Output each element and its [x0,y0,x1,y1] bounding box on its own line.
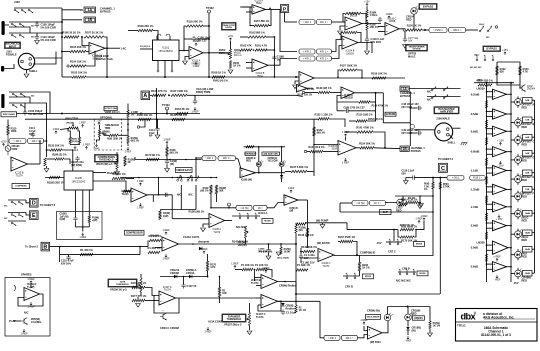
diode CR126 [281,303,284,306]
junction 296 bus [295,293,297,295]
wire r150 to boxes [422,29,429,31]
wire rail296 [295,244,297,305]
resistor box row3b [317,56,332,61]
label VR103 [105,111,121,114]
svg-text:COMPRESSOR: COMPRESSOR [126,233,143,235]
wire out down 172 [171,195,173,219]
resistor box R? row1a [299,20,315,25]
svg-text:C(W) 1700 5% C27: C(W) 1700 5% C27 [344,106,366,109]
label N/C spare [24,311,29,315]
wire tp104 hang [152,195,154,202]
svg-text:MALE: MALE [408,55,416,59]
power +REF diode row [200,247,208,254]
wire r150 drop [216,194,218,202]
op-amp comparator U8 [493,221,507,231]
svg-text:- 15V: - 15V [497,164,503,168]
svg-text:63V: 63V [402,172,407,175]
wire crb rail [343,275,360,277]
ground brc [428,333,433,337]
wire 106b2 out [298,199,308,201]
wire box2 stub [532,136,535,138]
wire cmp1 in stub [487,110,493,112]
wire row1 +in stub [340,26,345,30]
svg-text:SIDE CHAIN: SIDE CHAIN [3,113,15,116]
svg-text:1(W): 1(W) [163,215,168,218]
junction 274 50 [274,49,276,51]
op-amp IC103B [252,59,268,78]
svg-text:2dB: 2dB [525,137,529,139]
resistor R trim a [69,137,71,144]
svg-text:+(W): +(W) [476,78,482,82]
potentiometer VR107 [246,313,250,326]
power +15V cmp d [497,139,504,146]
label C106 [96,54,113,61]
wire tp103 stem [166,110,168,114]
resistor box row2a [299,49,315,54]
svg-text:5% 100 COR: 5% 100 COR [41,38,56,42]
label box BALANCED INPUT [5,42,21,49]
wire into boxes2 [211,207,237,209]
label -15V cr7 [376,241,382,245]
wire VCA pin hook1 [156,36,158,40]
power -REF vga [191,107,199,114]
svg-text:R1 33K 1%: R1 33K 1% [147,246,161,250]
svg-text:FREQ TRIM: FREQ TRIM [196,90,210,94]
junction bus 62/22 [61,21,63,23]
svg-text:1K 1%: 1K 1% [362,266,370,269]
junction y196 [432,195,434,197]
testpoint TP106 [228,203,231,206]
wire cmp0 in stub2 [487,96,493,98]
svg-text:- REF: - REF [494,278,501,282]
IC U101 VCA [153,40,180,61]
label IC106D [300,87,315,91]
wire row3 to op [332,46,343,59]
resistor R123 [519,66,529,75]
svg-text:R104 10K 1%: R104 10K 1% [70,60,87,64]
op-amp IC102A [189,47,203,66]
resistor box colf b [470,176,486,181]
wire mode rail 177 [121,177,217,179]
op-amp IC50D [368,327,383,340]
wire q102 loop [497,62,520,85]
wire box6 stub [532,212,535,214]
resistor divider Rd0 [485,101,487,109]
svg-text:50V: 50V [304,256,309,260]
wire 296 top link [295,223,297,225]
wire ue link [196,157,202,159]
junction bus 62/33 [61,32,63,34]
label c hang [258,249,268,254]
label threshold -1.1dB [470,169,478,173]
wire box1 stub [532,119,535,121]
wire IC102 out [203,52,230,54]
wire cr9 rail [398,271,416,273]
svg-text:R176 470 1%: R176 470 1% [131,281,147,285]
wire sc to 46 [38,103,47,114]
svg-text:1 REF: 1 REF [125,152,132,154]
wire oe led2 tail [281,178,283,182]
svg-text:SHELL: SHELL [29,69,38,73]
resistor R trim b [78,137,80,144]
wire cmp2 in stub2 [487,133,493,135]
wire spares feedback [18,294,43,306]
svg-text:IC101 A: IC101 A [258,211,268,215]
svg-text:81142-000-01, 1 of 3: 81142-000-01, 1 of 3 [481,333,511,337]
resistor R fbn [147,246,161,254]
svg-text:TL074: TL074 [256,315,264,319]
resistor box sc a [9,139,26,144]
wire q out [278,281,297,283]
wire TP102 down [208,13,210,77]
svg-text:RED: RED [522,279,528,283]
wire fb106d [338,70,340,77]
junction ue [195,157,197,159]
wire fb106d r [357,70,362,78]
junction 46 150 [46,149,48,151]
op-amp IC105B mid [328,141,356,156]
wire 105j out [356,147,360,149]
wire vca2 bot pin3 [88,190,90,216]
label ncx3 [396,279,411,283]
label C122 [402,103,420,109]
label COMP1 ID [360,251,375,255]
label VR105 [96,164,113,166]
label c011 [304,253,315,260]
label C123 [402,129,420,135]
svg-text:1K 1%: 1K 1% [433,325,441,328]
junction 274 77 [274,76,276,78]
wire row3 in [280,58,297,60]
LED D10 [515,269,524,277]
svg-text:RED: RED [522,219,528,223]
label box EXP THRESHOLD [222,314,246,322]
label oe op [241,179,252,182]
power +REF above IC102A [193,40,200,46]
wire sc jack bot [9,102,38,104]
svg-text:CR(W) Reddot: CR(W) Reddot [279,284,297,288]
junction VCA pin bus [164,76,166,78]
svg-text:C134A C1074: C134A C1074 [183,235,200,239]
wire +in [82,37,89,46]
svg-text:TP103: TP103 [162,103,170,107]
capacitor C114 [155,127,159,133]
IC U102 VCA2 [64,171,93,190]
capacitor C hang [266,248,270,254]
svg-text:TL074: TL074 [164,289,171,292]
svg-text:R146 100 1%: R146 100 1% [298,233,314,237]
switch out c4 [443,94,448,99]
label CR125 [279,284,297,288]
ground vr105 [115,172,120,176]
label channel1 bypass out [411,147,426,153]
svg-text:+15V: +15V [364,2,370,4]
label box MODE 4 [417,271,428,276]
op-amp IC110B [11,157,28,177]
label CR123 [411,309,421,316]
capacitor C127 [181,283,185,289]
svg-text:(SMD) TRIM: (SMD) TRIM [65,119,78,121]
wire rail 433 up [432,178,434,182]
switch J102 tip contact [14,9,19,13]
enclosure rect vca2 bottom [57,212,103,240]
svg-text:C(W): C(W) [60,218,66,221]
junction 162 [253,49,255,51]
junction rail177 x192 [191,177,193,179]
svg-text:R(W) (2) 1%: R(W) (2) 1% [52,153,67,157]
svg-text:MODE: MODE [264,221,271,223]
junction 156 b [156,113,158,115]
svg-text:R134 3K 1%: R134 3K 1% [175,107,190,111]
power -15V cmp e [497,161,503,168]
svg-text:47K 1 >: 47K 1 > [320,58,329,61]
wire ref to rail [207,254,209,261]
connector J101 XLR female [18,53,34,69]
svg-text:+ 15V: + 15V [496,217,503,221]
label ic106b2 [290,208,299,213]
wire R104 to node [86,52,95,67]
junction n out2 [295,243,297,245]
resistor R lead 307 [296,223,306,225]
junction 219 [219,276,221,278]
wire r128 lead b [64,159,70,164]
ground near 278 [276,252,281,256]
svg-text:16V: 16V [408,41,413,43]
wire opt low [97,137,100,143]
svg-text:P(W) 56(W) 1%: P(W) 56(W) 1% [401,227,418,229]
title block frame [456,309,538,342]
wire r141 r [373,132,385,148]
wire led1 chain [517,117,519,128]
svg-text:+(W): +(W) [92,219,98,222]
svg-text:C127 20: C127 20 [187,284,197,288]
op-amp IC106B small [297,85,308,93]
wire boxes2 out [267,203,284,208]
ground 106d [293,85,298,89]
svg-text:(W) 1%: (W) 1% [170,151,179,154]
resistor box sc b [28,139,44,144]
wire cmp3 in stub [487,148,493,150]
wire r115 top [7,120,9,126]
label GATE PUMP [316,219,329,223]
label r14x [297,263,311,267]
capacitor C011 vert [299,254,303,260]
diode CR n [199,247,202,250]
label SMD TRIM [65,119,78,121]
resistor R150 [406,24,422,32]
wire dec to op [358,335,368,338]
wire cmp8 out [508,247,511,249]
svg-text:2K: 2K [128,161,131,164]
junction cmp2 out [510,130,512,132]
wire de top [8,199,26,201]
wire led2 link [511,139,515,141]
dbx logo [461,312,477,322]
wire r pair l [398,230,400,237]
svg-text:R119 20K 1%: R119 20K 1% [187,20,203,24]
resistor R hang [280,247,291,255]
svg-text:47K 1 >: 47K 1 > [320,51,329,54]
wire r177 to op [145,300,159,302]
resistor box relay b [449,28,466,33]
resistor R157 [254,19,270,27]
resistor R163 [248,31,266,39]
wire de bot [8,220,26,222]
wire to 1A [62,9,82,11]
junction bus d [166,113,168,115]
junction fb106d l [337,76,339,78]
label cr107 [268,158,279,163]
svg-text:> 47K 1: > 47K 1 [303,51,312,54]
node open in105 [302,91,304,93]
wire bus 293 [296,293,440,295]
svg-text:UPC1252H2: UPC1252H2 [72,181,86,184]
wire q in [255,277,262,279]
wire cmp8 in stub [487,244,493,246]
resistor R162 [240,44,252,52]
svg-text:3dB: 3dB [525,153,529,155]
wire vca2 bot pin2 [82,190,84,227]
resistor divider Rd4 [485,177,487,185]
svg-text:5% 100 COR: 5% 100 COR [41,26,56,30]
svg-text:OPTIONAL: OPTIONAL [100,116,113,119]
svg-text:> 1K (W): > 1K (W) [239,207,248,210]
wire box9 stub [532,272,535,274]
svg-text:> 10K 1: > 10K 1 [205,157,214,160]
label R160 [107,138,122,140]
resistor R brc [429,321,441,329]
op-amp IC109 [89,43,105,61]
wire b up [147,241,149,247]
svg-text:1 REF: 1 REF [191,110,199,114]
wire r128 lead [47,158,56,160]
junction 105a out [375,92,377,94]
svg-text:R127 150K 1%: R127 150K 1% [170,89,188,93]
wire bar to jack [5,24,9,26]
label N/C out2 [427,99,431,102]
svg-text:1 REF: 1 REF [137,207,144,210]
label division [483,312,514,320]
wire o in2 [300,257,318,259]
wire sc to bus [38,92,50,114]
resistor box clip a [352,201,368,206]
power +15V bias [364,2,370,7]
wire 102b out [147,194,172,196]
svg-text:21K 1 >: 21K 1 > [320,21,329,24]
optional threshold trim dashed box [94,119,122,150]
wire 219 top [219,277,221,288]
svg-text:RED: RED [522,178,528,182]
wire led1 link [511,122,515,124]
wire hang cap b [268,253,270,256]
diode CR10A [189,275,192,278]
wire fb R119 [184,26,186,51]
svg-text:4.7K: 4.7K [210,266,215,269]
LED D4 [515,155,524,163]
resistor R fb 102b [112,172,126,180]
junction cmp8 out [510,247,512,249]
label CR7 C [388,250,396,254]
label IC107C [256,312,266,319]
wire into vca2 top [47,149,51,151]
svg-text:N/C: N/C [427,91,431,94]
capacitor C119 h [411,175,417,179]
ground 46 rail [44,169,49,173]
junction cmp9 a [486,263,488,265]
switch mode2 c1 [239,213,241,219]
svg-text:1dB: 1dB [525,100,529,102]
wire bus 113.5 [16,113,200,115]
label threshold -0.25dB [470,92,479,96]
label TP103 [162,103,170,107]
wire o out [334,212,433,256]
label r143 rail [424,184,430,192]
op-amp comparator U1 [493,89,507,99]
svg-text:DECILINEAR: DECILINEAR [367,316,380,319]
capacitor C140 [365,37,369,43]
switch 10A-2 b [487,25,492,31]
label ch1 bypass a [400,91,415,98]
wire 105j in1 [314,144,338,146]
svg-text:10K: 10K [222,292,227,295]
spares enclosure box [5,278,50,337]
junction row177 a [432,177,434,179]
svg-text:5534: 5534 [257,75,263,78]
wire led down [413,14,415,30]
wire aux drop [139,247,141,255]
LED CR104 [411,6,420,14]
wire brc led stub [407,307,409,315]
node 1B [84,17,96,23]
label C aux [61,260,74,266]
resistor box relay a [429,28,447,33]
wire oe led1 up [258,147,260,162]
junction rail177 x181.3 [181,177,183,179]
wire q pair out [267,270,272,278]
power -REF dec [360,318,368,325]
wire r pair r [414,221,424,237]
label threshold -0.95dB [470,150,479,154]
wire vca2 bot pin1 [74,190,76,217]
wire R105 to -in [86,51,89,53]
label ic106b [298,94,313,97]
label r1 mid [189,211,206,214]
wire +15 to pot [230,41,232,49]
junction y196 b [419,195,421,197]
wire chain b [166,156,168,160]
wire IC104B out [358,43,372,54]
capacitor C116 [165,159,169,165]
testpoint TP102 [208,10,211,13]
power +REF q [262,266,270,273]
capacitor C bot [281,310,285,316]
svg-text:> 10K 1: > 10K 1 [14,140,23,143]
junction tp106 [228,207,230,209]
svg-text:20K Lin: 20K Lin [234,55,243,57]
potentiometer VR105 [114,158,118,169]
resistor R on 219 [218,287,226,297]
wire row177 [406,177,411,179]
svg-text:MODE: MODE [419,273,426,275]
svg-text:IC(W) B: IC(W) B [290,208,299,210]
svg-text:BYPASS: BYPASS [400,94,411,98]
svg-text:TL074: TL074 [323,265,330,268]
wire 105 +stub [337,96,341,102]
label TO SHEET 2 de [40,203,56,207]
junction cmp9 out [510,266,512,268]
ground XLR shell [24,74,29,78]
resistor R 296 up [295,225,306,233]
